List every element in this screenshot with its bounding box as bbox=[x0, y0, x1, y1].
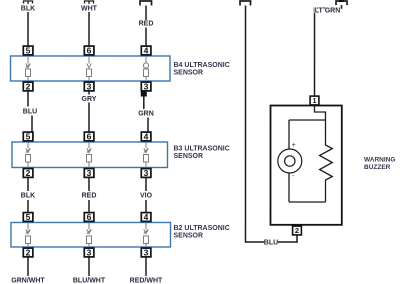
pin 2 buzzer bbox=[293, 226, 302, 235]
pin 4 B4 bbox=[141, 45, 151, 55]
wire col1 to B3 bbox=[31, 115, 33, 131]
svg-text:RED/WHT: RED/WHT bbox=[130, 278, 163, 284]
svg-text:6: 6 bbox=[87, 212, 92, 222]
B3 internal circuit col2 bbox=[86, 142, 91, 168]
wire col3 to B2 bbox=[145, 200, 147, 212]
wire WHT col2 bbox=[88, 12, 90, 46]
wire RED col3 lower bbox=[145, 27, 147, 45]
svg-text:3: 3 bbox=[144, 247, 149, 257]
pin 3 B4 col3 bbox=[141, 81, 151, 91]
pin 3 B3 col3 bbox=[141, 168, 151, 178]
svg-text:RED: RED bbox=[82, 193, 97, 200]
svg-text:SENSOR: SENSOR bbox=[174, 69, 204, 76]
connector bracket top col1 bbox=[24, 1, 33, 4]
wire col2 below B3 bbox=[88, 178, 90, 191]
connector bracket top col4 bbox=[240, 1, 251, 6]
pin 3 B3 col2 bbox=[84, 168, 94, 178]
terminal block col3 below B4 bbox=[141, 91, 147, 96]
pin 2 B4 bbox=[23, 81, 33, 91]
svg-text:2: 2 bbox=[295, 226, 299, 235]
svg-text:SENSOR: SENSOR bbox=[173, 232, 203, 239]
resistor R in buzzer bbox=[320, 120, 333, 202]
wire col1 below B3 bbox=[27, 178, 29, 191]
wire RED col3 upper bbox=[145, 5, 147, 20]
wire col3 below B3 bbox=[145, 178, 147, 191]
svg-text:BLU: BLU bbox=[23, 109, 37, 116]
pin 6 B2 bbox=[84, 212, 94, 222]
B2 internal circuit col1 bbox=[25, 222, 30, 247]
pin 3 B2 col3 bbox=[141, 247, 151, 257]
svg-text:2: 2 bbox=[26, 247, 31, 257]
pin 4 B2 bbox=[141, 212, 151, 222]
svg-text:3: 3 bbox=[87, 81, 92, 91]
svg-text:3: 3 bbox=[87, 247, 92, 257]
wire col3 below B4 bbox=[143, 96, 145, 109]
wire col1 below B4 bbox=[27, 91, 29, 106]
B4 internal circuit col1 bbox=[26, 56, 31, 82]
svg-text:WHT: WHT bbox=[81, 6, 98, 13]
wire col2 below B2 bbox=[88, 257, 90, 276]
connector bracket top col2 bbox=[85, 1, 94, 4]
wire BLK col1 bbox=[27, 12, 29, 46]
pin 5 B2 bbox=[23, 212, 33, 222]
svg-text:B4 ULTRASONIC: B4 ULTRASONIC bbox=[174, 62, 230, 69]
svg-text:6: 6 bbox=[87, 131, 92, 141]
connector pin stub LT GRN bbox=[339, 0, 344, 2]
pin 6 B4 bbox=[84, 45, 94, 55]
svg-text:1: 1 bbox=[312, 96, 316, 105]
svg-text:SENSOR: SENSOR bbox=[173, 153, 203, 160]
svg-text:+: + bbox=[292, 142, 296, 149]
svg-text:GRY: GRY bbox=[82, 96, 97, 103]
svg-text:4: 4 bbox=[144, 212, 149, 222]
pin 5 B4 bbox=[23, 45, 33, 55]
wire bottom horizontal left of BLU bbox=[245, 241, 263, 243]
svg-text:5: 5 bbox=[26, 212, 31, 222]
buzzer loop left lead lower bbox=[288, 173, 290, 202]
buzzer loop bottom wire bbox=[289, 201, 326, 203]
B2 internal circuit col3 bbox=[143, 222, 148, 247]
svg-text:2: 2 bbox=[26, 81, 31, 91]
connector bracket top LT GRN bbox=[336, 1, 347, 5]
pin 3 B4 col2 bbox=[84, 81, 94, 91]
wire stub col2 below B4 bbox=[88, 91, 90, 94]
wire col1 below B2 bbox=[27, 257, 29, 276]
svg-text:6: 6 bbox=[87, 45, 92, 55]
svg-text:5: 5 bbox=[26, 131, 31, 141]
svg-text:4: 4 bbox=[144, 45, 149, 55]
B3 internal circuit col3 bbox=[143, 142, 148, 168]
svg-text:2: 2 bbox=[26, 168, 31, 178]
buzzer internal jog from pin 1 bbox=[315, 106, 326, 121]
sounder circle bbox=[278, 149, 302, 173]
svg-text:3: 3 bbox=[144, 81, 149, 91]
connector bracket top col3 bbox=[140, 1, 152, 6]
svg-text:5: 5 bbox=[26, 45, 31, 55]
svg-text:4: 4 bbox=[144, 131, 149, 141]
svg-text:BLU: BLU bbox=[264, 240, 278, 247]
wire col2 to B2 bbox=[88, 200, 90, 212]
svg-text:WARNING: WARNING bbox=[364, 157, 395, 164]
svg-text:3: 3 bbox=[87, 168, 92, 178]
pin 5 B3 bbox=[23, 131, 33, 141]
wire col3 below B2 bbox=[145, 257, 147, 276]
sensor B3 box bbox=[12, 142, 168, 168]
svg-text:LT GRN: LT GRN bbox=[315, 7, 341, 14]
svg-text:GRN/WHT: GRN/WHT bbox=[11, 278, 45, 284]
wire col3 to B3 bbox=[147, 117, 149, 131]
buzzer loop top wire bbox=[289, 119, 326, 121]
svg-text:B3 ULTRASONIC: B3 ULTRASONIC bbox=[173, 146, 229, 153]
svg-text:BUZZER: BUZZER bbox=[364, 164, 391, 171]
wire buzzer pin2 riser bbox=[296, 236, 298, 243]
pin 2 B2 bbox=[23, 247, 33, 257]
pin 3 B2 col2 bbox=[84, 247, 94, 257]
svg-text:BLK: BLK bbox=[21, 6, 35, 13]
svg-text:B2 ULTRASONIC: B2 ULTRASONIC bbox=[173, 225, 229, 232]
svg-text:BLU/WHT: BLU/WHT bbox=[73, 278, 106, 284]
B4 internal circuit col2 bbox=[87, 56, 92, 82]
sensor B2 box bbox=[11, 222, 171, 247]
B2 internal circuit col2 bbox=[86, 222, 91, 247]
svg-text:RED: RED bbox=[139, 21, 154, 28]
svg-text:VIO: VIO bbox=[140, 193, 153, 200]
buzzer loop left lead upper bbox=[288, 120, 290, 149]
wire col2 to B3 bbox=[88, 102, 90, 131]
wire LT GRN drop bbox=[315, 5, 342, 96]
B3 internal circuit col1 bbox=[25, 142, 30, 168]
B4 internal circuit col3 bbox=[143, 56, 148, 82]
pin 6 B3 bbox=[84, 131, 94, 141]
warning buzzer box bbox=[270, 106, 341, 225]
pin 2 B3 bbox=[23, 168, 33, 178]
sensor B4 box bbox=[11, 56, 171, 81]
svg-text:3: 3 bbox=[144, 168, 149, 178]
svg-text:GRN: GRN bbox=[138, 111, 154, 118]
pin 4 B3 bbox=[141, 131, 151, 141]
wire bottom horizontal right of BLU bbox=[278, 241, 298, 243]
wire col4 vertical bbox=[244, 6, 246, 243]
svg-text:BLK: BLK bbox=[21, 193, 35, 200]
pin 1 buzzer bbox=[310, 96, 319, 105]
wire col1 to B2 bbox=[27, 200, 29, 212]
sounder inner circle bbox=[285, 156, 295, 166]
